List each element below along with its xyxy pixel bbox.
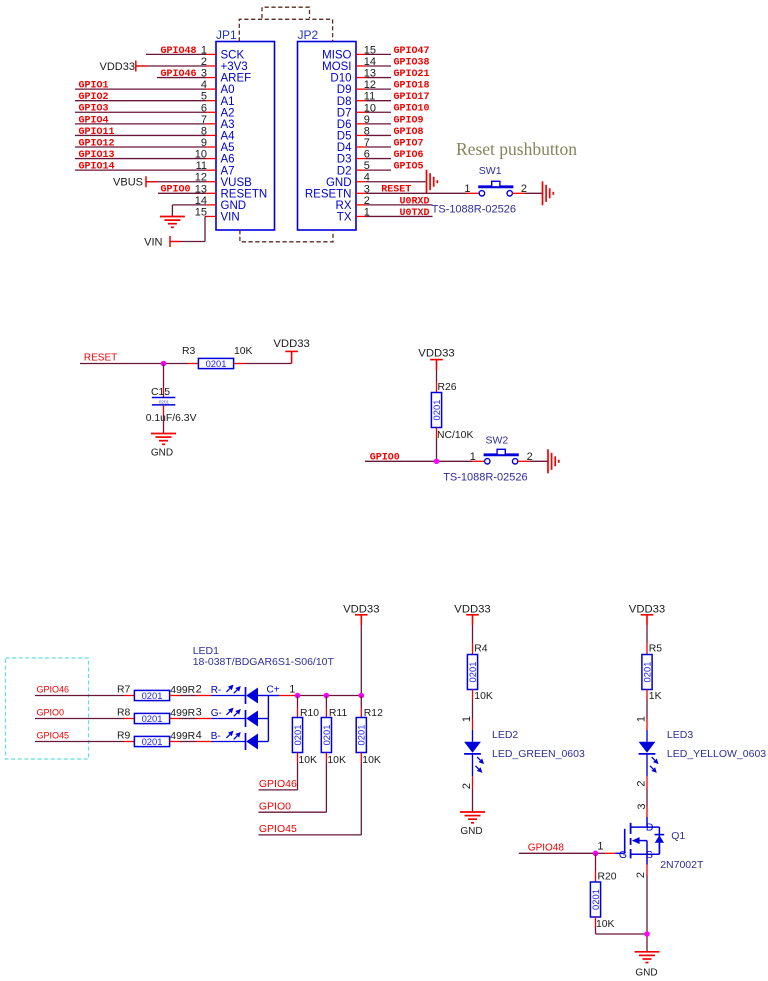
svg-text:VUSB: VUSB (221, 177, 253, 189)
wire R20 to source node (596, 917, 648, 934)
svg-text:2: 2 (196, 684, 202, 696)
svg-text:A4: A4 (221, 131, 236, 143)
svg-text:2: 2 (461, 783, 473, 789)
transistor Q1 (615, 817, 704, 871)
svg-text:GPIO46: GPIO46 (37, 685, 70, 695)
node source junction (644, 931, 650, 937)
svg-text:A1: A1 (221, 96, 235, 108)
port VIN (144, 236, 181, 249)
wire R8 to LED1 pin 3 (170, 718, 212, 720)
svg-text:D2: D2 (337, 165, 352, 177)
svg-text:D8: D8 (337, 96, 352, 108)
wire JP2 pin 13 (356, 77, 391, 79)
svg-text:1: 1 (635, 716, 647, 722)
svg-text:Q1: Q1 (671, 830, 685, 842)
resistor R11 (321, 708, 348, 766)
ground (JP1 GND pin) (160, 217, 185, 228)
svg-text:GND: GND (460, 826, 482, 837)
node junction R10 (295, 693, 301, 699)
svg-text:0201: 0201 (641, 662, 652, 683)
dashed mounting bracket top (239, 7, 332, 41)
svg-text:VDD33: VDD33 (343, 603, 379, 615)
resistor R26 (431, 382, 474, 441)
resistor R8 (117, 708, 196, 725)
svg-text:TX: TX (337, 212, 352, 224)
power VDD33 (R3) (273, 338, 309, 363)
connector JP2 (298, 28, 377, 230)
svg-text:GPIO46: GPIO46 (259, 778, 297, 790)
wire JP1 pin 1 (146, 53, 216, 55)
wire R3 to VDD33 (234, 363, 292, 365)
wire RESETN to SW1 (356, 192, 479, 194)
svg-text:1: 1 (470, 451, 476, 463)
wire LED1 C+ to VDD33 rail (279, 695, 361, 697)
wire JP2 GND pin 4 (356, 181, 426, 183)
wire JP2 pin 15 (356, 53, 391, 55)
svg-text:GPIO13: GPIO13 (79, 150, 115, 161)
svg-text:GPIO38: GPIO38 (394, 57, 430, 68)
wire rail to R12 (360, 696, 362, 718)
svg-text:GPIO47: GPIO47 (394, 46, 430, 57)
svg-text:GPIO17: GPIO17 (394, 92, 430, 103)
wire JP2 pin 14 (356, 65, 391, 67)
wire SW2 pin2 to ground (518, 460, 548, 462)
svg-text:GPIO3: GPIO3 (79, 104, 109, 115)
resistor R4 (467, 644, 493, 702)
svg-text:U0TXD: U0TXD (400, 208, 430, 219)
wire JP1 pin 2 (136, 65, 216, 67)
wire JP2 pin 9 (356, 123, 391, 125)
svg-text:3: 3 (196, 707, 202, 719)
svg-text:R9: R9 (117, 731, 131, 742)
wire junction to C15 (163, 364, 165, 398)
port VDD33 (JP1 pin 2) (100, 60, 147, 73)
svg-text:0201: 0201 (467, 662, 478, 683)
port VBUS (JP1 pin 12) (113, 176, 157, 189)
svg-text:SCK: SCK (221, 50, 245, 62)
svg-text:GPIO48: GPIO48 (528, 843, 565, 854)
svg-text:499R: 499R (170, 685, 195, 696)
svg-text:1: 1 (461, 716, 473, 722)
svg-text:1: 1 (464, 183, 470, 195)
pushbutton SW2 (443, 435, 533, 484)
wire VDD33 to R26 (436, 370, 438, 393)
svg-text:R7: R7 (117, 685, 131, 696)
svg-text:LED2: LED2 (492, 729, 518, 741)
svg-text:499R: 499R (170, 708, 195, 719)
pushbutton SW1 (432, 165, 527, 215)
wire R11 to GPIO0 (259, 753, 327, 813)
svg-text:0201: 0201 (292, 725, 303, 746)
wire R9 to LED1 pin 4 (170, 741, 212, 743)
svg-text:JP2: JP2 (298, 28, 319, 42)
svg-text:RESET: RESET (84, 353, 117, 364)
svg-text:GPIO7: GPIO7 (394, 138, 424, 149)
svg-text:GPIO21: GPIO21 (394, 69, 430, 80)
svg-text:JP1: JP1 (216, 28, 237, 42)
svg-text:A7: A7 (221, 165, 235, 177)
svg-text:2: 2 (635, 780, 647, 786)
wire JP2 pin 7 (356, 146, 391, 148)
svg-text:AREF: AREF (221, 73, 252, 85)
svg-text:VDD33: VDD33 (629, 603, 665, 615)
svg-text:VDD33: VDD33 (418, 347, 454, 359)
svg-text:499R: 499R (170, 731, 195, 742)
svg-text:Reset pushbutton: Reset pushbutton (456, 139, 577, 159)
wire JP1 pin 8 (75, 134, 216, 136)
svg-text:MISO: MISO (322, 50, 351, 62)
resistor R3 (182, 346, 253, 369)
svg-text:C+: C+ (267, 685, 280, 696)
svg-text:R4: R4 (474, 644, 488, 655)
svg-text:R-: R- (211, 685, 222, 696)
svg-text:GPIO1: GPIO1 (79, 81, 109, 92)
LED1 pin 4 B- (196, 730, 246, 742)
wire junction to R20 (595, 853, 597, 882)
svg-text:18-038T/BDGAR6S1-S06/10T: 18-038T/BDGAR6S1-S06/10T (193, 656, 335, 668)
wire JP2 pin 11 (356, 100, 391, 102)
svg-text:A0: A0 (221, 84, 235, 96)
svg-text:0201: 0201 (356, 725, 367, 746)
wire VDD33 to R4 (472, 625, 474, 655)
wire SW1 pin2 to ground (512, 192, 542, 194)
svg-text:GPIO0: GPIO0 (161, 185, 191, 196)
svg-text:B-: B- (211, 731, 221, 742)
resistor R12 (356, 708, 383, 766)
wire JP2 pin 10 (356, 111, 391, 113)
svg-text:1K: 1K (649, 691, 662, 702)
wire LED2 pin 2 to ground (461, 776, 473, 812)
svg-text:RESETN: RESETN (221, 188, 268, 200)
svg-text:GPIO2: GPIO2 (79, 92, 109, 103)
svg-text:NC/10K: NC/10K (437, 430, 473, 441)
svg-text:D7: D7 (337, 107, 352, 119)
ground (SW1, rotated) (543, 181, 554, 205)
svg-text:D6: D6 (337, 119, 352, 131)
wire RESET to R3 (80, 363, 198, 365)
power VDD33 (LED2) (454, 603, 490, 625)
svg-text:S: S (646, 849, 653, 861)
LED1 (RGB LED) symbol (193, 645, 335, 750)
wire rail to R10 (297, 696, 299, 718)
svg-text:0201: 0201 (142, 690, 163, 701)
svg-text:VDD33: VDD33 (273, 338, 309, 350)
svg-text:LED_GREEN_0603: LED_GREEN_0603 (492, 748, 585, 760)
svg-text:4: 4 (196, 730, 202, 742)
svg-text:GPIO0: GPIO0 (37, 708, 65, 718)
wire GPIO46 to R7 (35, 695, 134, 697)
wire JP2 pin 5 (356, 169, 391, 171)
node GPIO48 junction (593, 851, 599, 857)
ground (SW2, rotated) (548, 449, 559, 473)
svg-text:GPIO48: GPIO48 (161, 46, 197, 57)
wire JP1 pin 9 (75, 146, 216, 148)
svg-text:R5: R5 (649, 644, 663, 655)
svg-text:RESET: RESET (381, 184, 411, 195)
wire C15 to ground (163, 405, 165, 434)
wire VDD33 down to rail (360, 625, 362, 696)
power VDD33 (LED1 rail) (343, 603, 379, 625)
wire GPIO0 to SW2 (365, 460, 485, 462)
wire GPIO0 to R8 (35, 718, 134, 720)
svg-text:A3: A3 (221, 119, 235, 131)
svg-text:0201: 0201 (159, 399, 170, 404)
svg-text:R26: R26 (438, 382, 457, 393)
svg-text:R11: R11 (329, 708, 348, 719)
node junction R12 (359, 693, 365, 699)
svg-text:GPIO10: GPIO10 (394, 104, 430, 115)
svg-text:0201: 0201 (142, 736, 163, 747)
wire JP2 RX pin 2 (356, 204, 433, 206)
svg-text:+3V3: +3V3 (221, 61, 248, 73)
svg-text:0201: 0201 (431, 400, 442, 421)
svg-text:RX: RX (336, 200, 352, 212)
wire JP1 pin 15 VIN (171, 216, 217, 241)
svg-text:0201: 0201 (142, 713, 163, 724)
svg-text:A6: A6 (221, 154, 235, 166)
wire JP1 pin 5 (75, 100, 216, 102)
svg-text:0201: 0201 (206, 358, 227, 369)
svg-text:10K: 10K (299, 755, 318, 766)
wire JP2 pin 6 (356, 158, 391, 160)
wire GPIO48 to Q1 gate (519, 841, 616, 854)
connector JP1 (195, 28, 275, 230)
resistor R5 (641, 644, 662, 702)
svg-text:GPIO11: GPIO11 (79, 127, 115, 138)
wire JP1 pin 11 (75, 169, 216, 171)
wire Q1 source to ground (635, 865, 647, 952)
svg-text:GPIO45: GPIO45 (37, 731, 70, 741)
svg-text:GPIO0: GPIO0 (259, 800, 291, 812)
wire R10 to GPIO46 (259, 753, 298, 790)
svg-text:D4: D4 (337, 142, 352, 154)
svg-text:2: 2 (635, 872, 647, 878)
svg-text:GND: GND (151, 447, 173, 458)
svg-text:D3: D3 (337, 154, 352, 166)
node RESET junction (161, 361, 167, 367)
svg-text:U0RXD: U0RXD (400, 196, 430, 207)
svg-text:GND: GND (221, 200, 247, 212)
wire JP1 pin 13 (158, 192, 216, 194)
svg-text:GPIO18: GPIO18 (394, 81, 430, 92)
LED3 symbol (639, 729, 767, 777)
LED2 symbol (464, 729, 585, 777)
wire JP1 pin 4 (75, 88, 216, 90)
svg-text:10K: 10K (327, 755, 346, 766)
svg-text:10K: 10K (596, 919, 615, 930)
wire JP2 pin 12 (356, 88, 391, 90)
svg-text:GPIO5: GPIO5 (394, 162, 424, 173)
wire R5 to LED3 pin 1 (635, 690, 647, 731)
power VDD33 (R26) (418, 347, 454, 370)
svg-text:A5: A5 (221, 142, 235, 154)
svg-text:GND: GND (326, 177, 352, 189)
cyan highlight box (6, 658, 89, 759)
svg-text:TS-1088R-02526: TS-1088R-02526 (432, 203, 516, 215)
wire JP1 pin 6 (75, 111, 216, 113)
wire R7 to LED1 pin 2 (170, 695, 212, 697)
node junction R11 (324, 693, 330, 699)
resistor R20 (590, 871, 617, 930)
resistor R10 (292, 708, 319, 766)
svg-text:R12: R12 (364, 708, 383, 719)
capacitor C15 (146, 387, 197, 424)
svg-text:GPIO6: GPIO6 (394, 150, 424, 161)
svg-text:D10: D10 (330, 73, 351, 85)
ground (LED2) (460, 812, 485, 837)
svg-text:GPIO8: GPIO8 (394, 127, 424, 138)
svg-text:GPIO46: GPIO46 (161, 69, 197, 80)
wire R4 to LED2 pin 1 (461, 690, 473, 731)
svg-text:RESETN: RESETN (305, 188, 352, 200)
LED1 pin 2 R- (196, 684, 246, 696)
svg-text:3: 3 (636, 803, 648, 809)
wire JP1 pin 7 (75, 123, 216, 125)
svg-text:R20: R20 (598, 871, 617, 882)
svg-text:VIN: VIN (221, 212, 240, 224)
node GPIO0 junction (434, 459, 440, 465)
wire JP1 pin 14 to ground (172, 205, 216, 217)
svg-text:C15: C15 (151, 387, 170, 398)
LED1 pin 3 G- (196, 707, 246, 719)
svg-text:2N7002T: 2N7002T (660, 859, 704, 871)
wire GPIO45 to R9 (35, 741, 134, 743)
svg-text:VIN: VIN (144, 237, 162, 249)
wire JP2 pin 8 (356, 134, 391, 136)
svg-text:D5: D5 (337, 131, 352, 143)
resistor R7 (117, 685, 196, 702)
svg-text:0.1uF/6.3V: 0.1uF/6.3V (146, 413, 197, 424)
svg-text:TS-1088R-02526: TS-1088R-02526 (443, 471, 527, 483)
dashed mounting bracket bottom (240, 230, 333, 242)
wire VDD33 to R5 (646, 625, 648, 655)
svg-text:GPIO12: GPIO12 (79, 138, 115, 149)
svg-text:0201: 0201 (590, 889, 601, 910)
wire R26 to GPIO0 node (436, 428, 438, 462)
svg-text:R3: R3 (182, 346, 196, 357)
resistor R9 (117, 731, 196, 748)
svg-text:D9: D9 (337, 84, 352, 96)
svg-text:VBUS: VBUS (113, 177, 143, 189)
svg-text:D: D (646, 822, 654, 834)
svg-text:R10: R10 (300, 708, 319, 719)
svg-text:A2: A2 (221, 107, 235, 119)
svg-text:GPIO4: GPIO4 (79, 115, 109, 126)
svg-text:LED3: LED3 (667, 729, 693, 741)
ground (C15) (151, 434, 176, 459)
wire JP2 TX pin 1 (356, 215, 433, 217)
svg-text:SW1: SW1 (479, 165, 502, 177)
wire rail to R11 (325, 696, 327, 718)
svg-text:0201: 0201 (321, 725, 332, 746)
wire R12 to GPIO45 (259, 753, 362, 835)
power VDD33 (LED3) (629, 603, 665, 625)
svg-text:10K: 10K (234, 346, 253, 357)
svg-text:GPIO9: GPIO9 (394, 115, 424, 126)
svg-text:10K: 10K (362, 755, 381, 766)
svg-text:R8: R8 (117, 708, 131, 719)
svg-text:1: 1 (597, 841, 603, 853)
wire JP1 pin 10 (75, 158, 216, 160)
svg-text:1: 1 (289, 684, 295, 696)
wire JP1 pin 12 (147, 181, 217, 183)
wire JP1 pin 3 (157, 77, 216, 79)
svg-text:VDD33: VDD33 (100, 61, 135, 73)
svg-text:G-: G- (211, 708, 222, 719)
ground (Q1 source) (635, 952, 660, 979)
svg-text:SW2: SW2 (486, 435, 509, 447)
svg-text:10K: 10K (474, 691, 493, 702)
svg-text:LED_YELLOW_0603: LED_YELLOW_0603 (667, 748, 766, 760)
svg-text:VDD33: VDD33 (454, 603, 490, 615)
svg-text:G: G (619, 849, 627, 861)
svg-text:MOSI: MOSI (322, 61, 351, 73)
svg-text:GND: GND (635, 967, 657, 978)
svg-text:GPIO14: GPIO14 (79, 162, 115, 173)
ground (JP2 GND pin, rotated) (427, 170, 438, 194)
svg-text:GPIO45: GPIO45 (259, 823, 297, 835)
wire LED3 pin 2 to Q1 drain (635, 776, 648, 817)
